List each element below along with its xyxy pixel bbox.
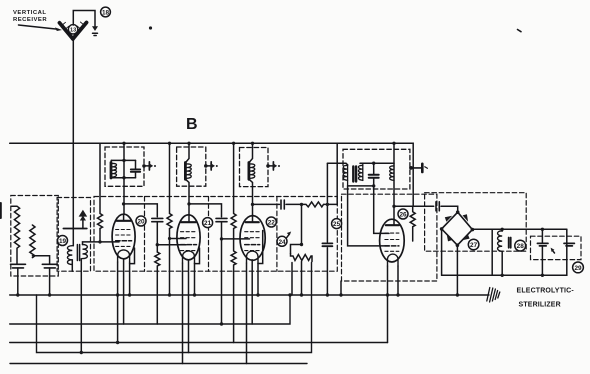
secondary loop left wire	[491, 229, 493, 275]
input coil Lb in left box	[30, 225, 35, 258]
tank circuit rails box 1	[111, 160, 135, 177]
V26 cathode arch	[388, 254, 399, 266]
V26 grid (dashed)	[385, 233, 399, 239]
wire bridge left vertex down	[441, 229, 443, 275]
V20 leads	[117, 262, 119, 343]
leader arrow to antenna	[19, 25, 63, 31]
coupling from V20 plate: wire	[122, 202, 125, 205]
svg-text:27: 27	[470, 242, 478, 249]
svg-text:28: 28	[517, 243, 525, 250]
shield divider	[144, 197, 146, 272]
IFT core	[353, 167, 356, 182]
wire T19 secondary bottom to rail	[80, 259, 82, 353]
shield enclosure (dashed) around amplifier tubes	[94, 197, 337, 272]
V22 plate lead and bar	[252, 215, 254, 222]
transformer T19 primary winding	[67, 246, 72, 265]
antenna tap symbol at box 1	[142, 162, 156, 170]
circle 26	[398, 209, 408, 219]
circle 18	[101, 7, 111, 17]
electrode pair 2 (sterilizer)	[564, 243, 574, 246]
wire bus to tube 20 plate	[123, 143, 125, 214]
grid tap arrow above transformer 19	[63, 210, 87, 229]
triode V22 envelope	[240, 216, 265, 261]
svg-text:18: 18	[102, 9, 110, 16]
node dots on bus	[122, 142, 395, 145]
triode V20 envelope	[112, 214, 135, 259]
detector load line with bypass capacitor	[326, 163, 328, 295]
V20 cathode arch	[118, 250, 130, 262]
wire to IF transformer primary	[327, 163, 347, 165]
wire bus to tube 22 plate through coil	[249, 143, 252, 215]
wire from bus corner	[336, 144, 338, 205]
circle 27	[468, 239, 479, 250]
grid resistor R0 from bus	[98, 143, 103, 242]
svg-text:26: 26	[399, 212, 407, 219]
V21 leads	[182, 263, 184, 364]
ground rail bus 1	[10, 294, 489, 296]
V21 plate lead and bar	[188, 215, 190, 222]
adjuster arrow 24	[287, 234, 290, 238]
V26 plate lead and bar	[386, 224, 399, 226]
electrode pair 1 (sterilizer)	[541, 229, 543, 243]
wire IFT to V26 grid	[374, 186, 389, 234]
V20 side lead bracket	[130, 248, 135, 264]
svg-text:22: 22	[268, 220, 276, 227]
volume control wiper wire	[301, 204, 303, 244]
supply rail bus 2	[10, 295, 290, 324]
plate load branch V26	[392, 205, 395, 208]
svg-text:ELECTROLYTIC-: ELECTROLYTIC-	[517, 288, 575, 295]
circle 22	[266, 217, 276, 227]
shield box (dashed) sterilizer electrodes	[531, 236, 582, 259]
grid feed wire with resistors to V22	[231, 143, 236, 239]
output tube V26 envelope	[380, 219, 405, 262]
label VERTICAL RECEIVER	[13, 10, 47, 23]
V22 leads	[246, 263, 248, 364]
V20 plate lead and bar	[123, 215, 125, 221]
IF transformer box (dashed)	[343, 149, 410, 189]
V21 side lead bracket	[195, 248, 200, 264]
sterilizer return wire	[442, 229, 567, 275]
input coil La in left box	[12, 206, 20, 264]
coupling capacitor C21	[216, 218, 227, 221]
svg-text:25: 25	[333, 221, 341, 228]
label ELECTROLYTIC STERILIZER	[517, 288, 575, 309]
V22 cathode arch	[247, 251, 259, 263]
ink speck	[149, 26, 152, 29]
coil 28 core	[509, 238, 511, 248]
supply rail bus 5	[10, 363, 307, 365]
tuned-circuit box 2 (dashed)	[177, 147, 206, 186]
transformer T19 core	[77, 245, 79, 261]
circle 28	[515, 240, 526, 251]
circle 25	[332, 219, 342, 229]
plate resistor R26	[410, 206, 415, 241]
circle 20	[136, 216, 146, 226]
antenna center circle	[68, 25, 77, 34]
tuned-circuit box 3 (dashed)	[240, 148, 269, 187]
supply rail bus 4	[37, 263, 312, 353]
transformer T19 secondary winding	[83, 245, 88, 259]
scan edge mark	[0, 203, 2, 218]
earth ground symbol	[487, 288, 500, 303]
shield box (dashed) output stage	[342, 194, 437, 281]
svg-text:20: 20	[137, 219, 145, 226]
wire IFT primary return to V26 cathode side	[348, 186, 389, 246]
coil L3 in box 3	[247, 163, 250, 180]
supply rail bus 3	[10, 342, 388, 344]
rectifier input capacitor	[436, 202, 439, 211]
circle 29	[573, 262, 584, 273]
triode V21 envelope	[177, 215, 200, 260]
svg-text:B: B	[186, 116, 198, 133]
wire bus to tube 21 plate through coil	[186, 143, 189, 215]
svg-text:RECEIVER: RECEIVER	[13, 17, 47, 23]
tickler coil to V26 plate	[393, 143, 395, 225]
coupling capacitor C20	[152, 218, 163, 221]
coupling capacitor C22	[281, 200, 284, 209]
wire to rectifier with coupling capacitor	[413, 205, 434, 207]
svg-text:VERTICAL: VERTICAL	[13, 10, 46, 16]
coil L1 in box 1	[110, 160, 112, 162]
bridge rectifier 27	[442, 212, 473, 245]
circle 19	[58, 236, 68, 246]
grid resistor R20	[155, 252, 160, 324]
IFT primary winding	[347, 165, 349, 186]
stub from shield to rail	[340, 281, 342, 295]
capacitor Cb bottom left	[42, 264, 57, 268]
svg-text:19: 19	[59, 238, 67, 245]
antenna tap symbol at box 3	[266, 162, 280, 170]
antenna V (vertical receiver)	[60, 23, 87, 39]
tuned-circuit box 1 (dashed)	[105, 147, 144, 186]
svg-text:29: 29	[574, 265, 582, 272]
grid feed wire with resistor to V21	[167, 143, 186, 238]
V21 grid (dashed)	[181, 232, 197, 238]
IFT bottom link wire	[348, 185, 374, 187]
V26 leads	[387, 266, 389, 343]
V21 cathode arch	[183, 251, 195, 263]
wire antenna to ground stub	[73, 11, 95, 27]
svg-text:13: 13	[70, 28, 76, 34]
circle 21	[203, 218, 213, 228]
shield box (dashed) rectifier	[425, 193, 527, 252]
wire T19 primary return	[71, 260, 73, 271]
IFT secondary winding	[362, 163, 364, 180]
V22 grid (dashed)	[245, 232, 260, 238]
wire bridge to sterilizer top	[472, 228, 566, 230]
antenna tap symbol at box 2	[204, 162, 218, 170]
shield divider	[276, 197, 278, 272]
node dots on rail 1	[16, 293, 459, 296]
antenna down-lead wire	[72, 39, 74, 246]
IFT tuning capacitor	[373, 163, 375, 186]
IFT top link wire	[360, 162, 394, 164]
ink speck	[518, 30, 522, 32]
B+ top bus wire	[10, 143, 414, 206]
ground arrow (counterpoise)	[92, 26, 98, 31]
shield divider	[208, 197, 210, 272]
adjuster arrow sterilizer	[552, 250, 555, 253]
output coil 28	[501, 229, 503, 231]
shield box (dashed) around transformer 19	[57, 198, 90, 272]
svg-text:STERILIZER: STERILIZER	[519, 302, 561, 309]
svg-text:24: 24	[278, 239, 286, 246]
capacitor Ca bottom left	[11, 264, 26, 268]
svg-text:21: 21	[204, 220, 212, 227]
potentiometer R24	[291, 254, 312, 262]
bridge diodes	[445, 214, 470, 241]
V20 grid (dashed)	[116, 230, 132, 236]
circle 24	[277, 236, 287, 246]
coil L2 in box 2	[184, 163, 187, 180]
coupling from V21 plate: wire	[187, 202, 190, 205]
wire bridge bottom vertex to ground rail	[456, 245, 458, 295]
tank capacitor C1 in box 1	[135, 160, 137, 177]
V22 side lead bracket	[258, 231, 263, 264]
detector coupling: plate wire of V22	[251, 203, 254, 206]
wire T19 secondary top to tube 20 grid	[83, 242, 120, 245]
shield box (dashed) left input filter	[11, 196, 59, 277]
bypass capacitor C25	[322, 243, 332, 246]
wire coil Lb to capacitor Cb	[32, 256, 49, 264]
output tap symbol at IF box	[409, 164, 427, 172]
